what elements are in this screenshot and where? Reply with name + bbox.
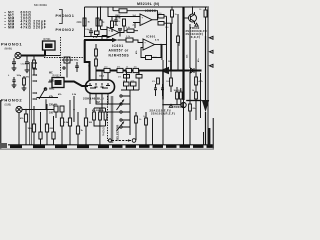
wire v183 low	[183, 100, 185, 145]
feedback loop	[141, 45, 161, 58]
svg-text:47k: 47k	[49, 96, 54, 99]
wire R602 branch	[84, 7, 86, 37]
resistor R624	[126, 38, 133, 42]
resistor R657	[69, 100, 71, 118]
svg-text:PHONO1: PHONO1	[56, 14, 75, 18]
svg-text:(MAIN): (MAIN)	[5, 48, 13, 51]
wire v166	[166, 16, 168, 70]
resistor R603	[96, 18, 99, 26]
connector arrow	[210, 36, 214, 39]
label r621	[179, 42, 181, 46]
label r630	[187, 54, 189, 58]
switch wiper arrow	[39, 88, 46, 100]
junction	[33, 109, 35, 111]
junction	[162, 104, 164, 106]
wire y97	[37, 97, 59, 99]
wire v163 tail	[162, 100, 164, 145]
ground	[22, 88, 27, 91]
wire v183 thick	[182, 7, 184, 100]
junction	[26, 55, 28, 57]
IC601 designation	[109, 44, 130, 58]
resistor R631	[195, 77, 198, 85]
resistor R607	[95, 31, 100, 35]
capacitor C602	[12, 58, 16, 68]
label r632	[168, 61, 172, 63]
wire inputB2	[102, 36, 107, 41]
rotated SELECTOR text	[116, 124, 120, 141]
wire lower link	[85, 36, 111, 38]
svg-text:47k: 47k	[152, 81, 155, 83]
FET pins bottom	[90, 94, 108, 105]
relay RY602	[52, 78, 64, 88]
capacitor C615	[154, 84, 157, 96]
shield dashed box	[44, 57, 84, 59]
arrow on bus	[160, 67, 170, 74]
title M5219L	[137, 2, 160, 6]
wire continue to IC601	[118, 40, 144, 43]
wire contact rail	[129, 96, 131, 135]
capacitor C608	[75, 62, 79, 72]
svg-text:PHONO2: PHONO2	[56, 28, 75, 32]
resistor R602	[83, 18, 86, 26]
switch wiper arrow	[117, 100, 125, 111]
svg-text:MC 600Ω: MC 600Ω	[34, 3, 48, 7]
junction	[33, 55, 35, 57]
resistor R643 inline	[133, 68, 139, 72]
wire base	[184, 17, 189, 19]
cluster under bus: resistor R633	[124, 75, 130, 79]
corner blob	[0, 143, 7, 148]
left edge artifact	[0, 100, 1, 150]
resistor R635	[124, 82, 130, 86]
TR607 designation	[150, 105, 184, 116]
resistor R629	[170, 78, 173, 86]
node PHONO2 input label	[1, 98, 22, 107]
feedback wire	[113, 7, 158, 20]
svg-text:PHONO: PHONO	[103, 127, 106, 136]
wire FET to contact2	[102, 102, 120, 112]
legend cartridge table	[5, 10, 47, 29]
junction	[100, 6, 101, 7]
trio wires	[94, 120, 106, 145]
resistor R644	[135, 112, 137, 116]
svg-text:100: 100	[49, 112, 54, 115]
resistor R638	[179, 92, 182, 99]
resistor R628	[157, 78, 160, 84]
label c617	[197, 58, 200, 62]
resistor R651	[25, 110, 27, 115]
resistor R641 inline	[117, 68, 123, 72]
resistor R601	[33, 56, 35, 61]
switch S2 contacts	[120, 95, 122, 97]
resistor R642 inline	[126, 68, 132, 72]
svg-text:10u 2.2k: 10u 2.2k	[174, 90, 183, 92]
label bus4k7	[155, 39, 160, 42]
wire v163 low	[162, 60, 164, 71]
bottom-right corner verticals	[204, 132, 206, 145]
wire output	[152, 19, 158, 21]
wire thick corner	[85, 62, 90, 80]
wire stub	[158, 16, 172, 23]
capacitor C618	[176, 92, 179, 99]
wire v196	[195, 40, 197, 92]
connector arrow	[210, 64, 214, 67]
cluster wires	[121, 71, 139, 98]
resistor R621	[177, 36, 180, 43]
wire drop input2	[108, 7, 140, 17]
wire	[45, 99, 47, 109]
warning triangle	[195, 23, 198, 26]
shield dashed vertical	[60, 37, 62, 76]
resistor R605	[123, 19, 126, 26]
resistor R618	[171, 10, 174, 17]
diode D601	[191, 68, 195, 73]
capacitor C607	[118, 29, 122, 37]
svg-text:TR607: TR607	[174, 105, 184, 109]
svg-text:PHONO1: PHONO1	[1, 42, 22, 47]
resistor R637	[195, 92, 198, 99]
resistor trio row	[93, 112, 96, 120]
svg-text:(K,E,F): (K,E,F)	[190, 35, 201, 39]
resistor R604	[99, 20, 102, 26]
capacitor C603	[89, 28, 93, 37]
svg-text:(SUB): (SUB)	[5, 104, 12, 107]
wire	[55, 112, 57, 118]
wire relay drop thick	[44, 50, 46, 56]
svg-text:MC: MC	[49, 72, 53, 75]
svg-text:47k: 47k	[118, 77, 121, 79]
junction	[189, 100, 191, 102]
rotated PHONO text	[103, 127, 106, 136]
wire phono2	[22, 109, 56, 111]
wire stem200	[200, 73, 202, 118]
capacitor C601	[25, 62, 29, 70]
signal arrowhead	[112, 38, 118, 42]
junction	[160, 44, 161, 45]
capacitor C652	[40, 112, 42, 132]
ground	[25, 70, 30, 73]
svg-text:K2: K2	[96, 100, 100, 104]
FET internals	[88, 83, 110, 88]
wire v171 thick	[170, 23, 172, 70]
wire outputB	[119, 26, 124, 33]
wire v162	[161, 45, 163, 60]
resistor R658	[77, 112, 79, 126]
svg-text:RY602: RY602	[53, 76, 61, 78]
trimmer C604	[64, 57, 70, 63]
op-amp IC600b	[107, 27, 119, 38]
ground	[12, 85, 17, 88]
ground bus main	[8, 144, 213, 146]
svg-text:• MM: • MM	[5, 25, 16, 29]
wire v74	[73, 96, 75, 122]
svg-text:NJM4558S: NJM4558S	[109, 53, 130, 57]
svg-text:1k: 1k	[126, 67, 128, 69]
resistor R656	[61, 112, 63, 118]
IC601 label2	[146, 35, 156, 39]
label r626	[135, 50, 138, 54]
wire output	[155, 44, 167, 46]
wire FET to contact	[96, 102, 120, 104]
contact circle	[63, 67, 65, 69]
selector wafer2	[111, 96, 113, 143]
svg-text:47k: 47k	[117, 67, 120, 69]
resistor R622 vertical	[95, 44, 97, 71]
wire thick relay to FET	[64, 82, 88, 87]
resistor R652	[33, 106, 35, 124]
relay RY601	[43, 41, 56, 50]
wire into relay	[48, 81, 52, 83]
junction	[171, 6, 172, 7]
power rail top	[85, 6, 208, 8]
wire R603 branch	[97, 7, 99, 37]
svg-text:47kΩ 220pF: 47kΩ 220pF	[21, 25, 47, 29]
svg-text:AN6557 or: AN6557 or	[109, 49, 130, 53]
selector2 dashed	[107, 96, 109, 141]
ground bus heavy dashes	[10, 145, 109, 148]
wire jack ground	[18, 113, 20, 145]
pin labels	[133, 14, 137, 27]
wire base	[163, 104, 181, 106]
junction	[101, 39, 103, 41]
svg-text:100p: 100p	[74, 60, 79, 62]
op-amp IC600	[140, 14, 152, 26]
svg-text:RY601: RY601	[44, 39, 52, 41]
transistor TR607	[181, 102, 186, 107]
wire triangle stem	[205, 36, 207, 145]
label R602b	[88, 22, 91, 24]
resistor R608	[127, 29, 134, 32]
FET pins top	[90, 71, 108, 81]
junction	[84, 36, 85, 37]
wire thick FET riser	[84, 40, 86, 63]
wire thick arm	[84, 39, 112, 41]
resistor R619	[158, 15, 164, 19]
ground	[12, 68, 17, 71]
jack J602	[16, 106, 22, 112]
label mid1	[58, 93, 62, 96]
resistor R636	[131, 82, 137, 86]
svg-text:C601: C601	[21, 64, 27, 66]
capacitor C616	[161, 84, 164, 96]
wire trimmer down	[66, 63, 68, 78]
junction	[97, 36, 98, 37]
junction	[207, 6, 208, 7]
resistor R623	[204, 10, 207, 17]
bus mid thick	[96, 70, 202, 72]
wire v163 thick	[162, 71, 164, 100]
TR600 designation text	[186, 26, 208, 39]
ground bus heavy dashes right	[112, 145, 214, 148]
node PHONO1 input label	[1, 42, 22, 51]
bottom strip artifact	[0, 148, 214, 150]
junction	[192, 6, 193, 7]
junction	[25, 109, 27, 111]
wire v152 low	[152, 118, 154, 145]
svg-text:IC601: IC601	[112, 44, 124, 48]
wire inputB1	[101, 29, 108, 31]
label c612	[99, 76, 105, 78]
mechanical linkage	[108, 139, 111, 142]
label r622	[88, 66, 91, 68]
svg-text:1k: 1k	[123, 80, 125, 82]
svg-text:2SA1115(E,F)/: 2SA1115(E,F)/	[150, 108, 172, 112]
svg-text:4.7k: 4.7k	[131, 80, 135, 82]
wire drop input	[100, 7, 102, 30]
right edge artifact	[213, 118, 214, 150]
capacitor C605	[12, 77, 15, 85]
svg-text:IC600: IC600	[145, 9, 156, 13]
capacitor C606	[114, 17, 118, 26]
capacitor C619	[189, 72, 191, 104]
resistor R627	[146, 56, 152, 60]
svg-text:220k: 220k	[77, 22, 83, 24]
wire right rail	[207, 7, 209, 145]
switch S1 contacts	[33, 63, 36, 99]
contact labels	[49, 72, 55, 115]
jack J601	[15, 52, 21, 58]
svg-text:2SK146(BL)/: 2SK146(BL)/	[83, 97, 104, 101]
transistor TR600	[189, 14, 197, 22]
resistor R645	[145, 112, 147, 118]
junction	[170, 70, 172, 72]
svg-text:C612: C612	[99, 76, 105, 78]
capacitor C653	[53, 116, 55, 132]
svg-text:PHONO2: PHONO2	[1, 98, 22, 103]
resistor R659	[85, 108, 87, 118]
svg-text:M5219L (N): M5219L (N)	[137, 2, 160, 6]
wire thin continue	[45, 55, 60, 57]
connector arrow	[210, 50, 214, 53]
node PHONO1 label	[56, 14, 75, 18]
wire drop R618	[171, 7, 173, 24]
resistor R634	[136, 75, 142, 79]
wire v190	[189, 24, 191, 68]
2SK146 designation	[83, 97, 104, 105]
selector wafer lines	[30, 62, 32, 145]
op-amp IC601	[143, 39, 155, 50]
big connector triangle	[202, 100, 209, 112]
resistor R609	[111, 21, 114, 28]
trio wires top	[94, 108, 106, 112]
resistor R617	[119, 9, 127, 13]
resistor R653	[46, 104, 48, 124]
junction	[157, 19, 158, 20]
svg-text:IC601: IC601	[146, 35, 156, 39]
corner bar	[208, 128, 211, 146]
resistor pair R654 R655	[54, 106, 58, 112]
legend header faint row	[34, 3, 48, 7]
resistor R620	[158, 22, 164, 26]
wire link TR607 to triangle	[186, 100, 202, 102]
IC600 label	[145, 9, 156, 13]
wire collector	[192, 7, 194, 14]
legend bracket	[59, 10, 62, 24]
resistor R640 inline	[104, 68, 110, 72]
dual FET 2SK146 body	[86, 80, 115, 94]
svg-text:10k: 10k	[134, 67, 137, 69]
svg-text:SELECTOR: SELECTOR	[116, 124, 120, 141]
wire phono1 thick	[21, 55, 46, 57]
svg-text:100p: 100p	[17, 75, 22, 77]
junction	[73, 109, 75, 111]
wire v178	[177, 14, 179, 71]
wire drop C601	[26, 56, 28, 63]
switch wiper arrow2	[117, 122, 125, 132]
wire input-	[133, 23, 140, 29]
svg-text:100p: 100p	[85, 29, 91, 31]
resistor R606	[23, 76, 25, 78]
warning triangle	[169, 104, 172, 107]
pivot circle	[44, 88, 47, 91]
label mid2	[72, 94, 77, 96]
wire emitter down	[183, 108, 185, 145]
junction	[183, 70, 185, 72]
node PHONO2 label	[56, 28, 75, 32]
